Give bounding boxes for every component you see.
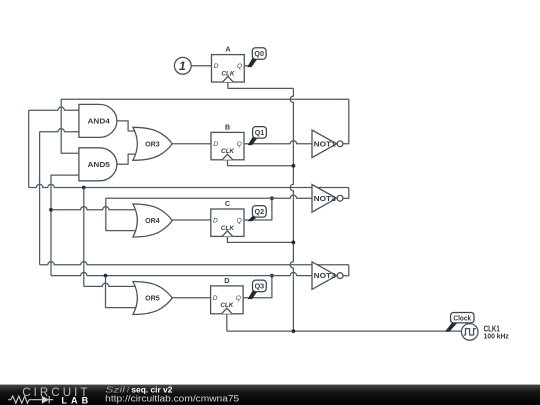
svg-text:NOT2: NOT2 xyxy=(314,195,336,203)
svg-text:Clock: Clock xyxy=(453,313,471,322)
svg-text:http://circuitlab.com/cmwna75: http://circuitlab.com/cmwna75 xyxy=(105,393,239,403)
svg-text:Q: Q xyxy=(236,295,241,302)
svg-text:OR3: OR3 xyxy=(145,140,160,148)
svg-text:OR5: OR5 xyxy=(145,295,160,303)
svg-text:D: D xyxy=(214,63,219,70)
svg-text:Q0: Q0 xyxy=(254,49,264,58)
svg-text:NOT3: NOT3 xyxy=(314,272,336,280)
svg-text:D: D xyxy=(213,295,218,302)
svg-text:LAB: LAB xyxy=(61,395,92,405)
svg-text:Q1: Q1 xyxy=(255,128,265,137)
svg-text:D: D xyxy=(213,141,218,148)
svg-text:AND4: AND4 xyxy=(88,117,110,125)
svg-text:OR4: OR4 xyxy=(145,217,160,225)
svg-text:Q: Q xyxy=(237,141,242,148)
svg-text:AND5: AND5 xyxy=(88,161,110,169)
svg-text:100 kHz: 100 kHz xyxy=(484,331,510,340)
svg-text:Q: Q xyxy=(237,217,242,224)
svg-text:Q2: Q2 xyxy=(255,207,265,216)
svg-text:1: 1 xyxy=(179,59,186,73)
svg-text:D: D xyxy=(213,217,218,224)
svg-text:A: A xyxy=(225,46,230,54)
svg-text:B: B xyxy=(225,123,230,131)
svg-text:D: D xyxy=(224,277,229,285)
svg-text:Q3: Q3 xyxy=(255,281,265,290)
svg-text:Q: Q xyxy=(237,63,242,70)
svg-text:C: C xyxy=(225,200,230,208)
svg-text:NOT1: NOT1 xyxy=(314,140,336,148)
